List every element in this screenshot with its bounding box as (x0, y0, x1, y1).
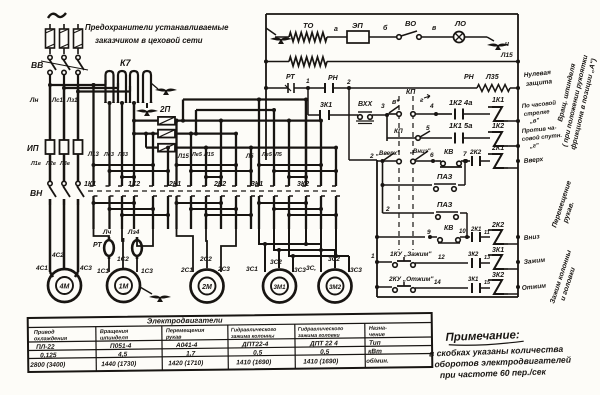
svg-text:9: 9 (427, 229, 431, 236)
svg-text:Лн: Лн (29, 97, 38, 104)
svg-text:1,7: 1,7 (186, 350, 196, 357)
control panel border right (right rail) (517, 14, 519, 297)
wire K7 pole4 to ground (146, 103, 148, 108)
svg-text:4,5: 4,5 (117, 351, 128, 358)
svg-text:1М: 1М (119, 284, 129, 291)
wire contact column 2К2-1 (220, 121, 222, 186)
svg-text:зажима колонны: зажима колонны (231, 333, 275, 340)
svg-text:1К2: 1К2 (492, 123, 504, 130)
svg-text:11: 11 (484, 230, 490, 236)
svg-text:1: 1 (371, 253, 375, 260)
svg-text:1410 (1690): 1410 (1690) (303, 358, 338, 365)
wire contact column 1К2-3 (167, 148, 169, 186)
switch BB tie bar (41, 61, 88, 70)
svg-text:г: г (420, 97, 424, 104)
thermal element left (104, 237, 114, 259)
wire node 14 (415, 287, 468, 289)
svg-text:Электродвигатели: Электродвигатели (147, 316, 223, 326)
motor 1M (107, 269, 140, 302)
svg-text:Вращения: Вращения (100, 329, 129, 335)
svg-text:14: 14 (434, 280, 441, 286)
ground right of rung 1 (487, 37, 494, 41)
svg-text:2К2: 2К2 (469, 149, 482, 156)
wire node 2 (333, 87, 477, 89)
crossover wires above 1К1/1К2 (94, 164, 154, 166)
wire phase A to K7 (48, 83, 52, 87)
svg-text:4М: 4М (59, 284, 70, 291)
bus D (175, 132, 236, 134)
svg-text:„г": „г" (529, 143, 540, 150)
fuse F1 (49, 24, 51, 29)
bus B (196, 109, 274, 111)
svg-text:ПАЗ: ПАЗ (437, 200, 453, 209)
svg-text:РН: РН (328, 75, 339, 82)
wire phase C to K7 (76, 90, 80, 94)
ground left of rung 1 (266, 28, 276, 35)
svg-text:КВ: КВ (444, 149, 453, 156)
bus B riser (195, 110, 197, 134)
svg-text:ПАЗ: ПАЗ (437, 172, 453, 181)
wires G6 columns down to jumpers (305, 229, 307, 244)
thermal element right (132, 237, 142, 259)
svg-text:2С2: 2С2 (199, 256, 212, 263)
svg-text:1: 1 (306, 78, 310, 85)
ground at motor 1M (140, 287, 152, 294)
svg-text:„в": „в" (529, 118, 540, 125)
svg-text:6: 6 (430, 152, 434, 159)
svg-text:ВН: ВН (30, 188, 43, 198)
svg-text:Назна-: Назна- (369, 326, 387, 332)
svg-text:15: 15 (484, 280, 491, 286)
wire contact column 2К2-3 (250, 148, 252, 186)
wire rung 9 (375, 235, 379, 239)
svg-text:0,5: 0,5 (253, 350, 263, 357)
svg-text:Л1е: Л1е (30, 161, 41, 167)
svg-text:2П: 2П (159, 105, 170, 114)
svg-text:2К2: 2К2 (491, 222, 504, 229)
svg-text:0,125: 0,125 (40, 352, 57, 359)
wire node 1 (294, 87, 325, 89)
heater 2П-2 (134, 132, 158, 134)
svg-text:0,5: 0,5 (320, 349, 330, 356)
svg-text:Гидравлического: Гидравлического (231, 327, 276, 334)
motor 3M1 (263, 270, 296, 303)
svg-text:3К2: 3К2 (468, 252, 479, 258)
svg-text:ИП: ИП (27, 144, 39, 153)
svg-text:Л35: Л35 (485, 74, 499, 81)
svg-text:Гидравлического: Гидравлического (298, 326, 343, 333)
svg-text:Лс1: Лс1 (51, 98, 63, 104)
bus A (183, 98, 306, 100)
svg-text:ВХХ: ВХХ (358, 101, 373, 108)
svg-text:ч: ч (505, 41, 509, 48)
svg-text:1С2: 1С2 (117, 256, 129, 263)
svg-text:Ле5: Ле5 (261, 152, 273, 158)
svg-text:2К1: 2К1 (491, 145, 504, 152)
svg-text:1К1 5а: 1К1 5а (449, 121, 472, 130)
wire phase A tap to 1K1 (92, 83, 96, 87)
motor 4M (48, 269, 81, 302)
table header underline (28, 323, 432, 328)
bus C (175, 119, 321, 121)
crossover wires above 2К1/2К2 (177, 164, 237, 166)
svg-text:Лч: Лч (102, 229, 111, 236)
svg-text:3С3: 3С3 (294, 267, 306, 274)
svg-text:РТ: РТ (286, 74, 295, 81)
svg-text:2К2: 2К2 (213, 181, 226, 188)
wire contact column 3К2-1 (305, 100, 307, 187)
svg-text:Л15: Л15 (500, 52, 513, 59)
wire phase drops to IP fuses (49, 85, 52, 140)
wire to rail (510, 87, 518, 89)
svg-text:2К1: 2К1 (168, 181, 181, 188)
svg-text:РТ: РТ (93, 242, 102, 249)
bus A riser (182, 100, 184, 121)
wire contact column 1К2-2 (152, 134, 154, 186)
table column lines (95, 327, 98, 371)
wire rung2 to right rail (327, 61, 518, 63)
svg-text:3К1: 3К1 (251, 181, 263, 188)
svg-text:1440 (1730): 1440 (1730) (101, 361, 136, 368)
rotated label зажим колонны и головки (549, 249, 581, 307)
wire (275, 36, 289, 38)
wire to rail (508, 293, 518, 295)
mechanical tie dashed line across contacts (88, 190, 340, 192)
wire contact column 3К1-1 (258, 100, 260, 187)
wire heater 3 feed (145, 134, 147, 148)
crossover wires below 1К1/1К2 (94, 202, 135, 204)
svg-text:Привод: Привод (34, 330, 55, 336)
svg-text:1410 (1690): 1410 (1690) (236, 359, 271, 366)
svg-text:РН: РН (464, 74, 475, 81)
wires into motor 3M1 (264, 244, 266, 272)
svg-text:2: 2 (346, 79, 351, 86)
svg-text:ТО: ТО (303, 21, 313, 30)
left rail lower (376, 160, 378, 297)
wire contact column 3К2-2 (320, 121, 322, 186)
output wires of 1К1/1К2 (94, 229, 110, 238)
wire contact column 3К2-3 (335, 148, 337, 186)
motor data table (28, 313, 433, 372)
control panel border left (265, 14, 267, 160)
heater resistor rung 2 (266, 61, 289, 63)
crossover wires above 3К1/3К2 (259, 164, 321, 166)
motor 3M2 (319, 270, 352, 303)
svg-text:1К2 4а: 1К2 4а (449, 98, 472, 107)
wire to rail (508, 243, 518, 245)
wire contact column 2К2-2 (235, 134, 237, 186)
wires to BH switch (49, 154, 52, 181)
svg-text:Л5: Л5 (274, 152, 283, 158)
heater 2П-3 (146, 146, 158, 148)
svg-text:3К1: 3К1 (468, 277, 479, 283)
svg-text:10: 10 (459, 229, 466, 235)
svg-text:3К1: 3К1 (492, 247, 504, 254)
svg-text:в*: в* (392, 99, 399, 106)
svg-text:3М1: 3М1 (273, 284, 286, 291)
ground at K7 pole 4 right (151, 83, 158, 89)
svg-text:кВт: кВт (368, 348, 382, 355)
svg-text:б: б (383, 24, 388, 32)
svg-text:2: 2 (385, 206, 390, 213)
svg-text:2М: 2М (201, 284, 212, 291)
wire node б (369, 36, 397, 38)
wire node 6 (415, 160, 436, 162)
wire contact column 1К1-3 (121, 103, 123, 186)
svg-text:Л15: Л15 (177, 154, 189, 160)
svg-text:13: 13 (484, 255, 490, 261)
svg-text:шпинделя: шпинделя (100, 335, 129, 341)
wire to rail (508, 145, 518, 147)
svg-text:12: 12 (438, 255, 445, 261)
svg-text:а: а (334, 26, 338, 33)
svg-text:4С1: 4С1 (35, 265, 48, 272)
jumper wires between 3M1 and 3M2 (259, 229, 321, 244)
AC source symbol (48, 13, 66, 18)
wire node в (421, 36, 453, 38)
svg-text:Тип: Тип (369, 340, 381, 347)
wires into motor 3M2 (320, 250, 322, 272)
svg-text:А041-4: А041-4 (175, 342, 198, 349)
svg-text:ПЛ-22: ПЛ-22 (36, 344, 55, 351)
svg-text:1КУ „Зажим": 1КУ „Зажим" (390, 251, 432, 258)
wire node1 down (307, 88, 309, 115)
wire contact column 1К1-1 (92, 85, 94, 186)
wire node 7 (461, 160, 470, 162)
output wires of 2К1/2К2 (177, 229, 194, 264)
svg-text:ДПТ22-4: ДПТ22-4 (241, 341, 269, 348)
note Примечание (428, 328, 572, 381)
rotated label перемещение рукав (551, 180, 581, 231)
svg-text:П051-4: П051-4 (110, 343, 132, 350)
svg-text:чение: чение (369, 332, 385, 338)
wire node 12 (415, 262, 468, 264)
svg-text:2: 2 (369, 153, 374, 160)
svg-text:Перемещения: Перемещения (166, 328, 205, 334)
svg-text:2800 (3400): 2800 (3400) (29, 362, 65, 369)
svg-text:Л15: Л15 (203, 152, 215, 158)
svg-text:7: 7 (463, 151, 467, 158)
wire contact column 1К1-2 (108, 103, 110, 186)
svg-text:1К1: 1К1 (492, 97, 504, 104)
wire to rail (508, 167, 518, 169)
svg-text:2С3: 2С3 (217, 266, 230, 273)
fuse F2 (63, 24, 65, 29)
svg-text:Л5: Л5 (245, 154, 254, 160)
crossover wires below 2К1/2К2 (177, 202, 222, 204)
wire contact column 2К1-1 (175, 121, 177, 186)
svg-text:Лз1: Лз1 (66, 98, 78, 104)
wire (463, 137, 490, 139)
svg-text:3С2: 3С2 (270, 259, 282, 266)
wire branch down (382, 161, 384, 213)
svg-text:3К2: 3К2 (297, 181, 309, 188)
wire contact column 2К1-2 (190, 134, 192, 186)
wire K7 pole3 down to heaters (133, 103, 135, 134)
svg-text:1С1: 1С1 (97, 268, 109, 275)
wire to rail (508, 268, 518, 270)
svg-text:4С2: 4С2 (51, 252, 64, 259)
svg-text:Ле5: Ле5 (191, 152, 203, 158)
svg-text:заказчиком в цеховой сети: заказчиком в цеховой сети (95, 36, 203, 45)
wire contact column 2К1-3 (205, 148, 207, 186)
svg-text:ДПТ 22 4: ДПТ 22 4 (309, 340, 338, 347)
wire contact column 3К1-2 (273, 110, 275, 186)
svg-text:3: 3 (381, 103, 385, 110)
wire node 2 down (348, 88, 350, 160)
wire node a (327, 36, 347, 38)
svg-text:об/мин.: об/мин. (366, 358, 389, 365)
wire (465, 36, 488, 38)
svg-text:охлаждения: охлаждения (34, 336, 68, 342)
crossover wires below 3К1/3К2 (259, 202, 306, 204)
motor 2M (191, 270, 224, 303)
wire bus A to G6 (305, 100, 307, 187)
svg-text:Предохранители устанавливаемы: Предохранители устанавливаемые (85, 23, 229, 32)
wire contact column 1К2-1 (133, 103, 135, 186)
bus E (175, 146, 336, 148)
svg-text:3С,: 3С, (306, 265, 316, 272)
svg-text:3С2: 3С2 (328, 256, 340, 263)
svg-text:3С1: 3С1 (246, 266, 258, 273)
svg-text:ВО: ВО (405, 19, 416, 28)
fuse F3 (77, 24, 79, 29)
svg-text:ЛО: ЛО (454, 19, 466, 28)
svg-text:Лз4: Лз4 (127, 229, 140, 236)
control panel border top (266, 13, 518, 15)
wire contact column 3К1-3 (288, 121, 290, 186)
svg-text:3М2: 3М2 (329, 284, 342, 291)
svg-text:2КУ „Отжим": 2КУ „Отжим" (388, 276, 434, 283)
table outer border (28, 313, 433, 372)
wire phase B to K7 (62, 86, 66, 90)
wires into motor 1M (108, 258, 110, 272)
svg-text:рукав: рукав (165, 335, 182, 341)
svg-text:3К1: 3К1 (320, 102, 332, 109)
svg-text:3С3: 3С3 (350, 267, 362, 274)
svg-text:„Вверх": „Вверх" (375, 151, 400, 157)
wire node 3 (372, 114, 386, 116)
wire to motor 4M (49, 199, 52, 272)
svg-text:КВ: КВ (444, 225, 453, 232)
heater 2П-1 (134, 119, 158, 121)
svg-text:4: 4 (429, 103, 434, 110)
svg-text:1420 (1710): 1420 (1710) (168, 360, 203, 367)
svg-text:ЭП: ЭП (352, 21, 363, 30)
svg-text:4С3: 4С3 (79, 265, 92, 272)
wire (463, 113, 490, 115)
control panel border bottom (377, 296, 518, 298)
wires into motor 2M (192, 264, 194, 272)
table row lines (28, 337, 432, 342)
svg-text:К7: К7 (120, 58, 132, 68)
svg-text:1С3: 1С3 (141, 268, 153, 275)
svg-text:2С1: 2С1 (180, 267, 193, 274)
svg-text:КП: КП (406, 89, 416, 96)
svg-text:зажима головки: зажима головки (298, 333, 341, 340)
svg-text:3К2: 3К2 (492, 272, 504, 279)
wire to rail (508, 120, 518, 122)
